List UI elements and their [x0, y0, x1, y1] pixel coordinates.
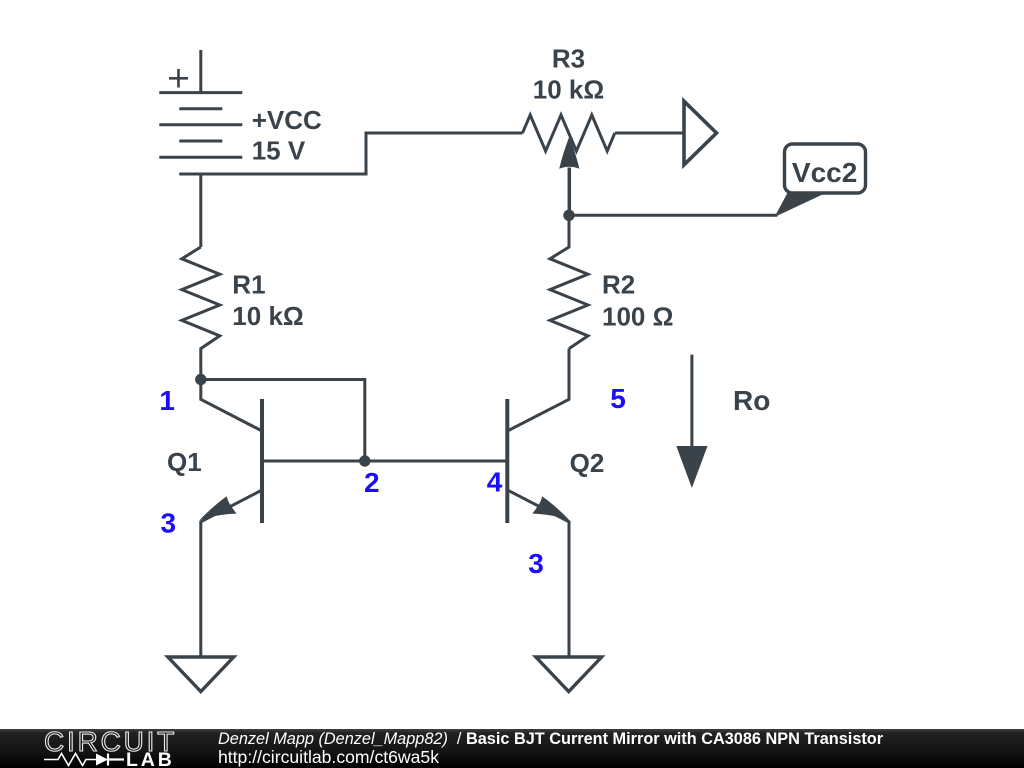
svg-text:4: 4: [487, 467, 503, 498]
svg-text:10 kΩ: 10 kΩ: [232, 301, 303, 331]
wire battery to R1: [199, 174, 202, 247]
CircuitLab logo resistor-diode glyph: [44, 752, 126, 767]
footer line 1: author / title: [218, 731, 883, 747]
transistor Q2: [507, 349, 569, 657]
wire base Q1 to Q2: [262, 460, 507, 463]
svg-text:+VCC: +VCC: [252, 105, 322, 135]
node 1: [195, 374, 206, 385]
svg-text:R3: R3: [552, 44, 585, 74]
battery V1: [159, 50, 242, 174]
wire node1 right to node2: [201, 380, 365, 462]
wire battery to R3 row: [201, 133, 523, 174]
node Vcc2 junction: [563, 210, 574, 221]
svg-text:Q2: Q2: [570, 448, 605, 478]
wire node to Vcc2 flag: [569, 214, 777, 217]
resistor R2: [550, 215, 588, 348]
output port arrow: [684, 101, 717, 165]
svg-text:10 kΩ: 10 kΩ: [533, 75, 604, 105]
svg-text:100 Ω: 100 Ω: [602, 302, 673, 332]
svg-text:15 V: 15 V: [252, 136, 306, 166]
footer bar: [0, 729, 1024, 768]
svg-text:5: 5: [610, 383, 626, 414]
CircuitLab logo text LAB: [126, 751, 175, 768]
svg-text:1: 1: [159, 385, 175, 416]
ground right: [536, 657, 602, 692]
svg-text:Vcc2: Vcc2: [792, 157, 857, 188]
svg-text:2: 2: [364, 467, 380, 498]
wire R3 to output port: [615, 132, 684, 135]
svg-text:Ro: Ro: [733, 385, 770, 416]
footer line 2: url: [218, 749, 439, 767]
svg-text:3: 3: [161, 508, 177, 539]
resistor R3: [523, 115, 615, 151]
potentiometer wiper arrow on R3: [568, 168, 572, 216]
svg-text:R1: R1: [232, 270, 265, 300]
svg-text:Q1: Q1: [167, 447, 202, 477]
net flag Vcc2: [775, 144, 866, 217]
svg-text:3: 3: [528, 548, 544, 579]
node 2: [359, 455, 370, 466]
ground left: [168, 657, 234, 692]
resistor R1: [182, 247, 220, 380]
current arrow Ro: [690, 355, 693, 446]
svg-text:R2: R2: [602, 270, 635, 300]
CircuitLab logo text CIRCUIT: [40, 729, 180, 755]
transistor Q1: [200, 380, 263, 657]
